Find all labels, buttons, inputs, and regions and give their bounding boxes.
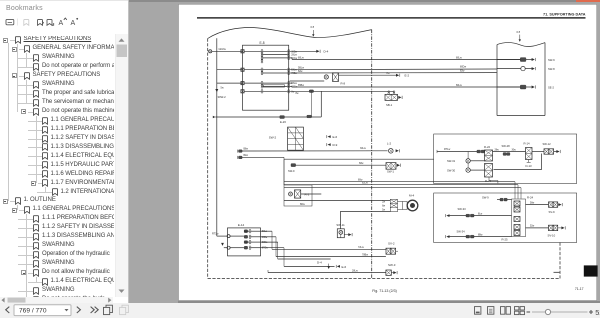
stub connector feed wire 2 (238, 155, 285, 159)
wire to E-8 pin row2 (217, 69, 243, 71)
vertical tie to lower wire (320, 91, 322, 117)
net E-14 row2 to SV-2 lower (260, 237, 386, 257)
wire number with down arrow at right torn edge (517, 30, 522, 42)
svg-text:SW-3: SW-3 (388, 263, 396, 267)
svg-text:R-24: R-24 (527, 196, 534, 200)
svg-text:85Bw: 85Bw (298, 84, 304, 87)
wire label GD28 (219, 47, 226, 51)
branch to D-4 with arrow (290, 50, 329, 54)
switch SW-11 (336, 223, 352, 238)
switch SW-31 (447, 152, 485, 164)
svg-text:71-17: 71-17 (575, 287, 584, 291)
outer dashed border right lower segment (559, 243, 561, 279)
page header title 71. SUPPORTING DATA (543, 13, 586, 17)
svg-text:R-25: R-25 (502, 238, 509, 242)
svg-text:88Lw: 88Lw (291, 83, 297, 85)
svg-text:R-9: R-9 (333, 143, 338, 147)
E-8 internal wiring (244, 51, 262, 91)
E-8 internal bar element (263, 85, 284, 87)
svg-text:E-6: E-6 (333, 135, 338, 139)
svg-text:L-2: L-2 (387, 142, 392, 146)
arrow to E-6 (327, 135, 338, 139)
svg-text:SW-9: SW-9 (288, 169, 295, 173)
E-14 left side pins (227, 235, 230, 250)
svg-text:28Lw: 28Lw (352, 269, 358, 272)
switch block SW-2 (269, 127, 304, 150)
motor M-4 connector stack (382, 199, 397, 211)
svg-text:RT1w: RT1w (212, 233, 219, 236)
relay R-3 (289, 190, 322, 198)
E-8 right edge pins with labels (288, 50, 290, 94)
svg-text:78Bw: 78Bw (362, 254, 368, 257)
continuation arrow at left bus bottom (215, 87, 224, 93)
relay R-8 with pilot circle (290, 73, 346, 86)
svg-text:A: A (59, 20, 64, 27)
document viewer gray background (129, 0, 600, 303)
wire R-8 to E-2 arrow (339, 72, 410, 77)
svg-text:30Lw: 30Lw (360, 147, 366, 150)
figure caption (372, 289, 397, 293)
svg-text:SW-33: SW-33 (458, 207, 467, 211)
orange chrome fragment top right (576, 0, 600, 2)
wires between pin rows (263, 51, 288, 91)
svg-text:SW-12: SW-12 (543, 142, 552, 146)
svg-text:SW-2: SW-2 (269, 135, 277, 139)
svg-text:0 8: 0 8 (311, 25, 315, 29)
switch SW-8 contact (497, 66, 555, 71)
svg-text:D-13: D-13 (526, 164, 533, 168)
wire number label with down arrow at torn edge (311, 25, 315, 36)
svg-text:R-23: R-23 (485, 179, 492, 183)
svg-text:D-4: D-4 (317, 261, 322, 265)
bottom toolbar (0, 303, 140, 319)
svg-text:80Lw: 80Lw (456, 56, 462, 59)
E-14 row wires (230, 231, 261, 248)
svg-text:80Lw: 80Lw (298, 56, 304, 59)
fuse SB-1 (385, 91, 402, 107)
switch SW-9 contact (497, 58, 555, 62)
svg-text:30W-2: 30W-2 (218, 95, 227, 99)
outer dashed border left (207, 39, 209, 279)
inner box top edge (284, 159, 434, 185)
stub connector feed wire 1 (238, 149, 388, 153)
svg-text:GD2w: GD2w (219, 47, 226, 51)
bus wire 3 (into box) (290, 69, 497, 73)
connector E-14 outline (228, 223, 261, 256)
E-14 right pin labels (262, 231, 269, 250)
left vertical feed wire (216, 38, 218, 236)
solenoid SV-9 (526, 202, 563, 214)
schematic torn-edge top boundary (left section) (208, 27, 372, 38)
E-14 internal pins (249, 229, 251, 249)
black position marker (584, 265, 598, 276)
E-8 internal pins column (261, 50, 263, 94)
svg-text:52: 52 (595, 307, 600, 316)
switch SW-34 net (446, 230, 512, 239)
svg-text:SW-9: SW-9 (482, 196, 489, 200)
svg-text:RT1w: RT1w (444, 148, 450, 151)
svg-text:R-22: R-22 (484, 145, 491, 149)
wire M-4 lower pin to SW-11 branch (340, 211, 390, 228)
svg-text:E-6: E-6 (342, 265, 347, 269)
switch SE-2 contact (497, 85, 554, 89)
svg-text:SW-30: SW-30 (447, 168, 456, 172)
net E-14 row4 to E-6 (260, 248, 346, 269)
page header rule (197, 17, 586, 19)
svg-text:SB-1: SB-1 (386, 103, 393, 107)
svg-text:8Lw: 8Lw (478, 213, 483, 215)
svg-text:82w: 82w (298, 70, 303, 73)
relay R-23 (485, 154, 542, 184)
svg-text:SV-10: SV-10 (548, 233, 556, 237)
junction with circled-cross on frame (209, 50, 243, 53)
wire to M-4 connector (284, 200, 390, 205)
connector SW-12 and output (532, 142, 560, 154)
svg-text:68w: 68w (359, 162, 364, 165)
relay R-14 (524, 142, 533, 160)
wire to E-8 pin row3 (217, 82, 243, 84)
svg-text:B2w: B2w (244, 155, 249, 157)
relay R-3 enclosure (284, 185, 312, 206)
wire with connector E-26 (213, 115, 322, 124)
svg-text:SV-9: SV-9 (549, 210, 556, 214)
svg-text:58w: 58w (530, 202, 535, 204)
wire from E-8 to SB-1 pins (290, 90, 394, 117)
svg-text:SV-2: SV-2 (388, 242, 395, 246)
relay block R-24 (512, 196, 534, 237)
page number 71-17 (575, 287, 584, 291)
switch SW-30 (447, 163, 485, 172)
box1 entry connector (437, 148, 485, 153)
svg-text:SW-34: SW-34 (457, 230, 466, 234)
svg-text:Fig. 71-13 (2/3): Fig. 71-13 (2/3) (372, 289, 397, 293)
switch SW-3 (386, 263, 397, 275)
bus wire upper (to SW-9) (290, 56, 521, 59)
switch SW-33 net (446, 207, 512, 217)
bottom bus wire 1 (284, 179, 515, 199)
svg-text:SW-9: SW-9 (548, 58, 555, 62)
svg-text:E-26: E-26 (280, 120, 286, 124)
torn-edge boundary right section (497, 43, 545, 47)
bookmarks sidebar (0, 0, 128, 303)
switch SW-9 feed (288, 162, 386, 173)
svg-text:52w: 52w (530, 226, 535, 228)
outer dashed border bottom (208, 278, 560, 280)
connector SW-28 (502, 144, 511, 155)
svg-text:0 8: 0 8 (517, 30, 521, 34)
net label 30W-2 (218, 95, 227, 99)
net to SW-3 (268, 269, 386, 272)
svg-text:M-4: M-4 (409, 194, 414, 198)
bottom bus wire 2 (284, 182, 518, 199)
relay R-22 (484, 145, 493, 161)
sheet fold dash-dot line (371, 30, 373, 279)
main wire box1 (493, 149, 526, 151)
svg-text:71. SUPPORTING DATA: 71. SUPPORTING DATA (543, 13, 586, 17)
relay box 1 outline (434, 134, 577, 184)
relay R-25 label (502, 238, 509, 242)
net E-14 row3 to D-4 (260, 242, 330, 269)
svg-text:8w: 8w (387, 72, 390, 75)
E-14 left labels (212, 233, 227, 248)
svg-text:82w: 82w (460, 69, 465, 72)
svg-text:80Lw: 80Lw (456, 84, 462, 87)
svg-text:B8w: B8w (244, 149, 249, 151)
svg-text:SW-1: SW-1 (387, 170, 394, 174)
svg-text:2w: 2w (382, 202, 385, 204)
connector SW-9 label top (482, 196, 512, 201)
svg-text:SW-11: SW-11 (336, 223, 345, 227)
svg-text:A: A (71, 20, 76, 27)
bus wire 4 (to SE-2) (290, 84, 521, 87)
small mark left of marker (554, 271, 560, 273)
svg-text:30w: 30w (512, 149, 517, 151)
svg-text:R-14: R-14 (524, 142, 531, 146)
svg-text:8w: 8w (382, 206, 385, 208)
svg-text:72Lw: 72Lw (358, 246, 364, 249)
svg-text:80Dw: 80Dw (460, 66, 466, 69)
bottom bus wire 3 (284, 188, 521, 199)
arrow to R-9 (327, 143, 338, 147)
svg-text:SE-2: SE-2 (548, 85, 554, 89)
svg-text:8w: 8w (296, 93, 299, 95)
relay box 2 outline (434, 193, 577, 243)
svg-text:769 / 770: 769 / 770 (19, 307, 47, 314)
right section enclosure (497, 43, 545, 116)
bus wire 2 (to SW-8) (290, 66, 497, 70)
svg-text:E-2: E-2 (405, 74, 410, 78)
svg-text:SW-28: SW-28 (502, 144, 511, 148)
svg-text:28Lw: 28Lw (291, 55, 297, 57)
switch SW-1 (386, 163, 401, 174)
svg-text:82Lw: 82Lw (362, 182, 368, 185)
svg-text:SW-8: SW-8 (548, 67, 555, 71)
motor M-4 body (398, 194, 418, 211)
lamp L-2 (360, 142, 399, 154)
E-8 left edge pins (241, 50, 244, 93)
svg-text:R-8: R-8 (341, 82, 346, 86)
page background (179, 4, 597, 300)
svg-text:28w: 28w (495, 149, 500, 151)
svg-text:SW-31: SW-31 (447, 159, 456, 163)
diode D-13 (526, 160, 533, 168)
svg-text:D-4: D-4 (324, 50, 329, 54)
svg-text:5w: 5w (221, 87, 224, 90)
svg-text:R-3: R-3 (305, 193, 310, 197)
solenoid SV-10 (526, 225, 566, 237)
solenoid SV-2 (386, 242, 398, 255)
svg-text:8Bw: 8Bw (478, 234, 483, 236)
connector E-8 outline (243, 41, 289, 110)
net E-14 row1 to SV-2 (260, 231, 386, 249)
svg-text:E-8: E-8 (260, 41, 265, 45)
svg-text:E-14: E-14 (238, 223, 245, 227)
svg-text:8Dw: 8Dw (300, 203, 305, 206)
